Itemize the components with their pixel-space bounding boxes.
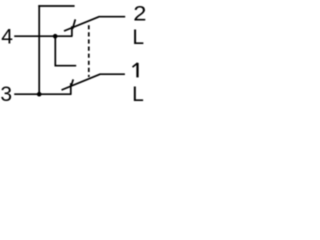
contact tick S2 [71, 79, 73, 86]
wire terminal 4 horizontal [14, 35, 72, 37]
wire step fixed contact S1 [71, 26, 73, 36]
svg-text:4: 4 [1, 26, 13, 49]
switch blade S2 [62, 74, 100, 90]
svg-text:L: L [132, 26, 144, 49]
contact tick S1 [73, 19, 76, 29]
wire left vertical bus [38, 5, 40, 94]
wire top horizontal [38, 5, 74, 7]
node B junction dot [37, 92, 42, 97]
wire terminal 2 horizontal [99, 16, 126, 18]
mechanical linkage dashed [88, 25, 90, 77]
switch blade S1 [64, 17, 99, 31]
wire terminal 3 horizontal [14, 93, 71, 95]
svg-text:3: 3 [0, 83, 12, 106]
svg-text:2: 2 [133, 2, 146, 26]
label terminal 1 [133, 63, 138, 78]
wire jog horizontal fixed contact S2 [55, 65, 77, 67]
wire mid vertical from node A [54, 36, 56, 65]
wire step fixed contact S2 [70, 83, 72, 94]
wire terminal 1 horizontal [100, 73, 125, 75]
node A junction dot [53, 34, 58, 39]
two-gang switch schematic [0, 0, 159, 114]
svg-text:L: L [132, 83, 144, 106]
